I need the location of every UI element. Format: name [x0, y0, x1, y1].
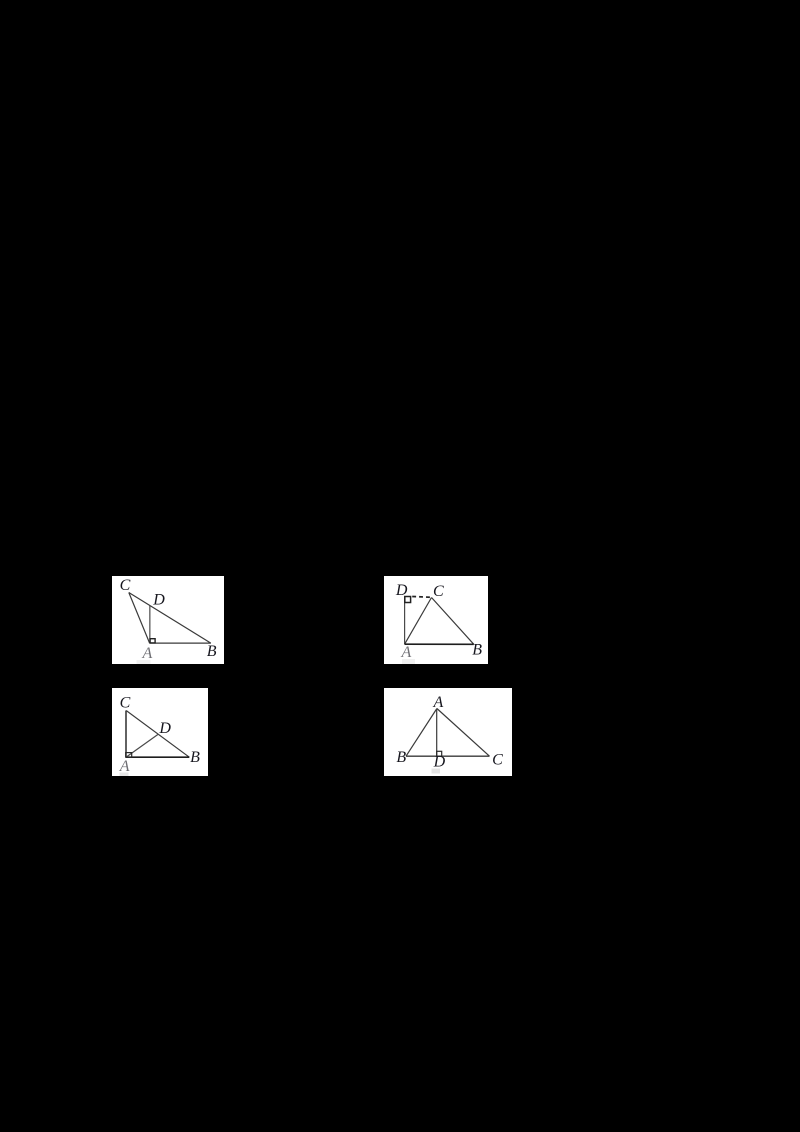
svg-text:A: A: [119, 758, 130, 775]
wire segment AD: [126, 734, 158, 757]
svg-text:A: A: [433, 694, 444, 711]
smudge: [137, 660, 151, 664]
wire side BC: [406, 755, 490, 757]
figure 2: triangle ABC with external point D, dashed DC, right angle at D: [384, 576, 488, 664]
svg-text:D: D: [152, 592, 165, 609]
wire altitude AD: [436, 709, 438, 757]
svg-text:B: B: [396, 749, 406, 766]
svg-text:B: B: [472, 642, 482, 659]
wire dashed DC: [412, 596, 431, 599]
wire segment AD: [149, 606, 151, 644]
wire side BA: [406, 709, 437, 757]
figure 3: right triangle ABC with cevian AD, right angle at A: [112, 688, 208, 776]
svg-text:D: D: [158, 720, 171, 737]
figure 1: triangle ABC with cevian AD, right angle at A: [112, 576, 224, 664]
svg-text:C: C: [120, 694, 131, 711]
right angle mark at D: [405, 597, 411, 603]
right angle mark at D: [437, 751, 442, 756]
svg-text:C: C: [433, 583, 444, 600]
svg-text:C: C: [492, 752, 503, 769]
wire side AB: [150, 642, 211, 644]
svg-text:D: D: [433, 754, 446, 771]
wire side AB: [405, 643, 474, 645]
svg-text:A: A: [142, 645, 153, 662]
smudge: [402, 659, 415, 664]
wire side AC: [437, 709, 490, 757]
svg-text:A: A: [401, 644, 412, 661]
svg-text:B: B: [190, 749, 200, 766]
svg-text:B: B: [207, 643, 217, 660]
smudge: [432, 769, 441, 774]
wire side CA: [129, 593, 150, 644]
figure 4: triangle ABC with altitude AD, right angle at D: [384, 688, 512, 776]
wire side CA vertical: [125, 711, 127, 758]
wire side CB through D: [126, 711, 189, 758]
right angle mark at A: [150, 639, 155, 643]
wire side CB through D: [129, 593, 211, 644]
svg-text:C: C: [120, 577, 131, 594]
wire side AB: [126, 756, 189, 758]
svg-text:D: D: [395, 582, 408, 599]
smudge: [120, 773, 129, 777]
wire segment DA vertical: [404, 596, 406, 644]
wire side CB: [432, 598, 474, 645]
wire side AC: [405, 598, 432, 645]
right angle mark at A: [126, 753, 132, 758]
